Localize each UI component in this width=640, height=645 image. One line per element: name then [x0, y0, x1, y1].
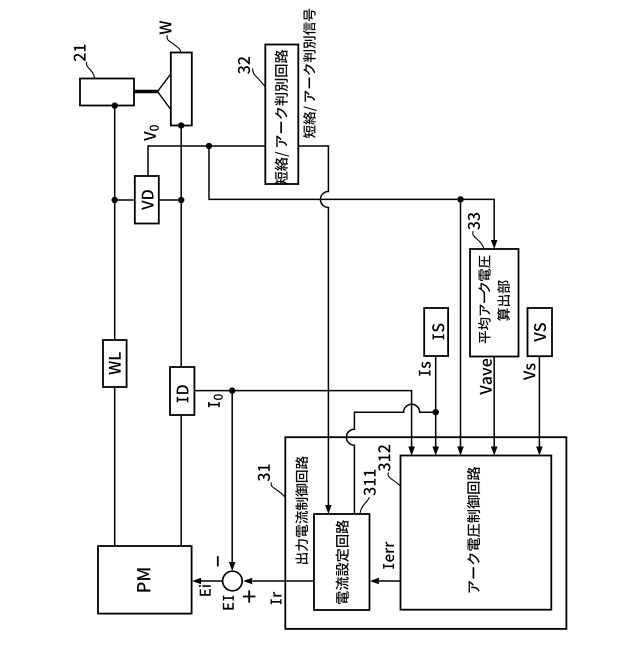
voltage setter box VS: [528, 308, 553, 356]
label 311: [364, 470, 376, 496]
label Vs: [524, 364, 536, 381]
arrowhead Vave into box 312: [491, 447, 498, 456]
output current control circuit frame 31: [285, 437, 566, 629]
wire Vave from calculator 33 down to box 312: [493, 357, 495, 447]
wire Ir from current setting circuit 311 to summing point EI: [253, 580, 315, 582]
junction I0 branch to EI: [229, 387, 235, 393]
label short/arc discrimination signal: [303, 9, 317, 138]
text in box 32: [275, 50, 290, 185]
label I0: [208, 394, 223, 407]
wire discrimination signal from box 32 to current setting circuit 311: [298, 146, 328, 505]
label Vave: [480, 359, 492, 395]
arc voltage control circuit box 312: [401, 456, 552, 610]
arrowhead Ierr into 311: [370, 578, 379, 585]
short/arc discrimination circuit box 32: [265, 45, 298, 185]
label 312: [378, 445, 390, 471]
wire Ei from summing point EI to power main PM: [201, 580, 223, 582]
label 33: [468, 213, 480, 230]
junction Is branch to 311: [433, 409, 439, 415]
label 32: [238, 57, 250, 74]
arrowhead I0 into summing point EI: [229, 562, 236, 571]
arrowhead I0 into box 312: [408, 447, 415, 456]
label W: [160, 21, 172, 34]
minus sign at EI top input: [217, 556, 219, 566]
wire from electrode W down to power main PM (right bus): [180, 126, 182, 547]
junction VD left on left bus: [112, 197, 118, 203]
summing point circle EI: [223, 571, 243, 591]
wire from feed unit 21 down to power main PM (left bus): [114, 106, 116, 546]
label VS: [534, 323, 546, 342]
wire feed speed setter box WL: [103, 340, 127, 387]
label EI: [223, 596, 234, 610]
label V0 node: [144, 125, 159, 141]
voltage detector box VD: [135, 176, 159, 224]
arrowhead into current setting circuit 311: [325, 505, 332, 514]
wire I0 from current detector ID right and down into box 312: [194, 391, 411, 447]
arrowhead Ei into PM: [192, 578, 201, 585]
leader line for label W: [167, 35, 181, 52]
arrowhead Vs into box 312: [536, 447, 543, 456]
wire feed unit box 21: [80, 79, 134, 106]
label Ierr: [383, 542, 394, 569]
leader line for label 33: [473, 231, 484, 248]
label 31: [258, 464, 270, 481]
leader line for label 32: [253, 69, 266, 88]
wire branch down into arc voltage control circuit 312 (V0 input): [460, 199, 462, 446]
text in box 312 arc voltage control circuit: [467, 467, 480, 593]
leader line for label 312: [388, 473, 400, 487]
wire VD right connection: [159, 199, 181, 201]
label PM: [137, 568, 150, 591]
wire node V0 stub down to voltage detector VD: [148, 146, 265, 176]
text output current control circuit: [295, 456, 308, 564]
label Ei: [199, 585, 211, 596]
wire electrode box W: [171, 53, 192, 126]
average arc voltage calculator box 33: [470, 249, 519, 357]
junction at feed unit 21 bottom: [112, 102, 118, 108]
label 21: [74, 45, 86, 62]
wire Is branch to current setting circuit 311: [346, 404, 435, 514]
current detector box ID: [170, 367, 194, 415]
junction at electrode W bottom: [178, 122, 184, 128]
contact tip triangle at electrode W: [158, 74, 171, 110]
label IS: [432, 324, 444, 340]
current setter box IS: [424, 308, 448, 356]
power main circuit box PM: [98, 546, 192, 614]
label WL: [109, 352, 121, 374]
wire V0 branch down and right to average arc voltage calculator: [209, 146, 494, 240]
arrowhead Is into box 312: [432, 447, 439, 456]
junction VD right on right bus: [178, 197, 184, 203]
wire VD left connection: [115, 199, 135, 201]
arrowhead V0 input into box 312: [457, 447, 464, 456]
wire I0 branch down to summing point EI: [231, 391, 233, 562]
plus sign at EI right input: [243, 590, 255, 602]
label Ir: [271, 592, 282, 605]
text in box 33 line2: [497, 280, 510, 321]
wire Vs from voltage setter VS down to box 312: [538, 357, 540, 447]
arrowhead into average arc voltage calculator 33: [491, 240, 498, 249]
label ID: [177, 385, 189, 402]
thick wire feed bar between 21 and W: [134, 90, 158, 94]
arrowhead Ir into summing point EI: [243, 578, 252, 585]
leader line for label 21: [86, 62, 94, 79]
current setting circuit box 311: [314, 514, 370, 610]
leader line for label 311: [360, 497, 370, 514]
text in box 33 line1: [478, 256, 491, 344]
junction V0 tap on output line: [206, 143, 212, 149]
leader line for label 31: [271, 483, 285, 498]
label Is: [419, 362, 431, 376]
text in box 311 current setting circuit: [336, 520, 349, 604]
wire Ierr from box 312 to current setting circuit 311: [379, 580, 401, 582]
junction V0 branch to 33/312: [457, 196, 463, 202]
wire Is from current setter IS down to box 312: [435, 356, 437, 447]
label VD: [142, 190, 154, 210]
